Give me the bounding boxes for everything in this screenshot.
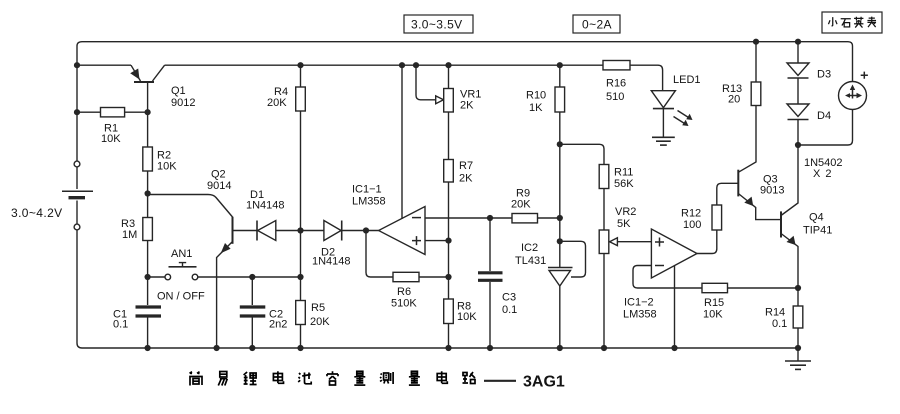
svg-text:C3: C3 — [502, 292, 516, 304]
node: Q1 base / R1 right junction — [145, 109, 151, 115]
svg-text:5K: 5K — [617, 218, 631, 230]
caption: dash and 3AG1 — [484, 374, 565, 391]
caption: circuit title (CJK) — [190, 371, 476, 385]
wire: IC1-2 minus input loop to R15 row — [633, 266, 702, 289]
wire: bottom ground rail — [82, 347, 798, 349]
potentiometer VR2 wiper arrow — [610, 238, 652, 246]
ground (main rail) — [785, 348, 811, 369]
resistor R4 20K — [267, 65, 305, 230]
svg-text:R6: R6 — [397, 286, 411, 298]
node: C3 bottom rail junction — [487, 345, 493, 351]
node: switch row left junction — [145, 274, 151, 280]
node: R5 bottom rail junction — [297, 345, 303, 351]
svg-text:Q1: Q1 — [171, 85, 186, 97]
potentiometer VR1 2K — [444, 65, 482, 112]
node: C2 bottom rail junction — [249, 345, 255, 351]
shunt regulator IC2 TL431 — [515, 241, 586, 348]
wire: R7 down through plus node to R8 — [448, 182, 450, 299]
capacitor C1 0.1 — [113, 307, 161, 331]
resistor R8 10K — [444, 299, 478, 348]
wire: D1 anode to center node — [276, 230, 301, 232]
node: R15 / Q4 emitter / R14 junction — [795, 285, 801, 291]
svg-text:510K: 510K — [391, 298, 417, 310]
node: R10 top rail junction — [557, 62, 563, 68]
node: D1/D2/R4/R5 junction — [297, 227, 303, 233]
battery B 3.0~4.2V — [11, 191, 93, 220]
wire: junction to C1 — [147, 277, 149, 305]
svg-text:1N4148: 1N4148 — [246, 200, 285, 212]
svg-text:IC1−1: IC1−1 — [352, 184, 382, 196]
wire: center node to D2 anode — [301, 230, 324, 232]
meter M (quartz watch) — [839, 72, 868, 110]
node: VR1 top rail junction — [445, 62, 451, 68]
wire: battery minus to lower contact — [76, 201, 78, 225]
svg-text:R11: R11 — [614, 167, 633, 179]
wire: IC1-2 V- to bottom rail — [674, 266, 676, 348]
svg-text:IC1−2: IC1−2 — [624, 297, 654, 309]
svg-text:R12: R12 — [681, 208, 701, 220]
svg-text:1M: 1M — [122, 229, 137, 241]
svg-text:R10: R10 — [526, 90, 546, 102]
wire: R11 feed from R10 bottom — [560, 144, 604, 164]
node: switch row / R5 junction — [297, 274, 303, 280]
wire: switched rail (Q1 collector) to R16 — [165, 64, 603, 66]
svg-text:2K: 2K — [459, 173, 473, 185]
resistor R15 10K — [702, 283, 798, 320]
wire: IC1-1 V+ supply line — [401, 65, 403, 219]
node: C1 bottom rail junction — [145, 345, 151, 351]
svg-text:R15: R15 — [704, 297, 724, 309]
wire: Q2 collector to R2/R3 junction — [148, 195, 233, 218]
svg-text:1N4148: 1N4148 — [312, 256, 351, 268]
transistor Q1 9012 — [130, 65, 195, 109]
annotation box quartz watch (CJK) — [822, 12, 882, 33]
svg-text:9014: 9014 — [207, 180, 231, 192]
node: R4 top rail junction — [297, 62, 303, 68]
svg-text:3.0~4.2V: 3.0~4.2V — [11, 206, 63, 220]
resistor R9 20K — [511, 188, 560, 223]
svg-text:2n2: 2n2 — [269, 319, 287, 331]
wire: IC1-1 plus input stub — [425, 240, 449, 242]
svg-text:TIP41: TIP41 — [803, 225, 832, 237]
svg-text:510: 510 — [606, 91, 624, 103]
transistor Q3 9013 — [738, 106, 784, 220]
wire: R6 feedback from output node — [366, 231, 393, 278]
potentiometer VR1 2K wiper arrow — [436, 96, 444, 104]
resistor R6 510K — [391, 272, 449, 309]
svg-text:0.1: 0.1 — [113, 319, 128, 331]
wire: VR1 to R7 — [448, 112, 450, 160]
node: battery plus junction (emitter tap) — [74, 62, 80, 68]
svg-text:10K: 10K — [101, 133, 121, 145]
resistor R5 20K — [296, 301, 331, 349]
svg-text:3.0~3.5V: 3.0~3.5V — [411, 18, 463, 32]
capacitor C3 0.1 — [478, 218, 517, 348]
wire: contact to battery plus plate — [76, 167, 78, 189]
svg-text:Q2: Q2 — [211, 169, 226, 181]
resistor R3 1M — [121, 218, 152, 242]
diode D4 1N5402 — [787, 104, 843, 180]
node: C3 top junction — [487, 215, 493, 221]
wire: IC1-1 minus input row to R9 — [425, 217, 512, 219]
node: IC1-1 V+ rail junction — [399, 62, 405, 68]
svg-text:1K: 1K — [529, 102, 543, 114]
svg-text:10K: 10K — [457, 311, 477, 323]
node: Q2 emitter rail junction — [214, 345, 220, 351]
svg-text:9012: 9012 — [171, 97, 195, 109]
svg-text:R5: R5 — [311, 302, 325, 314]
resistor R11 56K — [599, 165, 634, 231]
resistor R7 2K — [444, 160, 473, 185]
op-amp IC1-2 LM358 (points right) — [623, 229, 697, 321]
wire: meter bottom connection — [798, 110, 853, 146]
wire: Q1 base down to R2 — [147, 82, 149, 147]
resistor R16 510 — [603, 61, 630, 104]
resistor R12 100 — [681, 183, 738, 231]
svg-text:D4: D4 — [817, 110, 831, 122]
svg-text:R16: R16 — [606, 78, 626, 90]
svg-text:0~2A: 0~2A — [582, 18, 612, 32]
resistor R2 10K — [143, 147, 177, 173]
wire: Q1 emitter feed — [77, 64, 131, 66]
svg-text:20: 20 — [728, 94, 740, 106]
svg-text:20K: 20K — [511, 199, 531, 211]
wire: IC1-2 output up to R12 — [697, 230, 717, 254]
node: R8 bottom rail junction — [445, 345, 451, 351]
svg-text:100: 100 — [683, 219, 701, 231]
wire: C1 to bottom rail — [147, 318, 149, 349]
resistor R1 10K — [77, 108, 148, 146]
resistor R10 1K — [526, 65, 565, 114]
svg-text:LED1: LED1 — [673, 74, 701, 86]
node: R2/R3/Q2-collector junction — [145, 190, 151, 196]
node: R13 top rail junction — [753, 39, 759, 45]
wire: D2 cathode to IC1-1 output node — [342, 230, 379, 232]
pushbutton AN1 — [148, 248, 205, 303]
wire: switch to C2/R5 row — [198, 276, 301, 278]
svg-text:10K: 10K — [703, 309, 723, 321]
battery connector contact (top circle) — [74, 161, 80, 167]
svg-text:AN1: AN1 — [171, 248, 192, 260]
annotation box 0~2A — [573, 15, 620, 33]
node: R11 takeoff junction — [557, 141, 563, 147]
wire: top positive rail from battery to meter — [77, 42, 853, 161]
svg-text:IC2: IC2 — [521, 242, 538, 254]
svg-text:Q4: Q4 — [809, 212, 824, 224]
svg-text:R7: R7 — [459, 160, 473, 172]
wire: R3 down to switch row — [147, 241, 149, 278]
wire: R2 to R3 (through collector tap) — [147, 171, 149, 218]
svg-text:R14: R14 — [765, 307, 785, 319]
wire: LED1 to ground — [662, 109, 664, 138]
svg-text:10K: 10K — [157, 161, 177, 173]
annotation box 3.0~3.5V — [404, 15, 473, 33]
resistor R13 20 — [722, 42, 761, 106]
svg-text:0.1: 0.1 — [772, 318, 787, 330]
svg-text:X 2: X 2 — [813, 168, 833, 180]
battery connector contact (bottom circle) — [74, 224, 80, 230]
node: IC1-1 plus input junction — [445, 238, 451, 244]
svg-text:LM358: LM358 — [623, 309, 657, 321]
wire: R10 down through R9/ref nodes to IC2 — [559, 112, 561, 268]
node: IC2 bottom rail junction — [557, 345, 563, 351]
wire: center node down to R5 — [300, 231, 302, 301]
node: R9 right junction — [557, 215, 563, 221]
node: VR1 wiper rail junction — [413, 62, 419, 68]
wire: Q2 base to D1 cathode — [233, 230, 258, 232]
node: IC1-2 V- rail junction — [671, 345, 677, 351]
transistor Q2 9014 — [207, 169, 233, 278]
transistor Q4 TIP41 — [781, 145, 832, 288]
svg-text:20K: 20K — [267, 97, 287, 109]
potentiometer VR2 5K — [599, 206, 636, 348]
svg-text:9013: 9013 — [760, 185, 784, 197]
wire: left column down to bottom rail — [77, 230, 82, 348]
diode D1 1N4148 — [246, 189, 285, 241]
node: R1 left junction — [74, 109, 80, 115]
diode D2 1N4148 — [312, 221, 351, 268]
node: C2 top junction — [249, 274, 255, 280]
svg-text:VR2: VR2 — [615, 206, 636, 218]
wire: R16 to LED1 corner — [630, 65, 663, 91]
svg-text:LM358: LM358 — [352, 196, 386, 208]
wire: Q2 emitter down to bottom rail — [216, 277, 218, 348]
node: IC1-1 output junction — [363, 227, 369, 233]
node: D3 top rail junction — [795, 39, 801, 45]
svg-text:3AG1: 3AG1 — [523, 374, 565, 391]
svg-text:TL431: TL431 — [515, 255, 546, 267]
svg-text:2K: 2K — [460, 100, 474, 112]
node: D4 / Q4 collector / meter junction — [795, 142, 801, 148]
node: R6 right junction — [445, 274, 451, 280]
LED LED1 — [651, 74, 700, 126]
op-amp IC1-1 LM358 (points left) — [352, 184, 425, 255]
svg-text:20K: 20K — [310, 316, 330, 328]
node: VR2 bottom rail junction — [601, 345, 607, 351]
diode D3 1N5402 — [787, 42, 831, 81]
svg-text:D3: D3 — [817, 69, 831, 81]
node: R14 bottom rail junction — [795, 345, 801, 351]
ground (LED1) — [652, 137, 675, 145]
resistor R14 0.1 — [765, 288, 803, 348]
capacitor C2 2n2 — [240, 277, 288, 348]
node: IC2 reference junction — [557, 238, 563, 244]
wire: VR1 wiper feed — [416, 65, 436, 100]
wire: D3 to D4 — [797, 78, 799, 104]
svg-text:ON / OFF: ON / OFF — [157, 291, 205, 303]
svg-text:56K: 56K — [614, 178, 634, 190]
svg-text:0.1: 0.1 — [502, 304, 517, 316]
